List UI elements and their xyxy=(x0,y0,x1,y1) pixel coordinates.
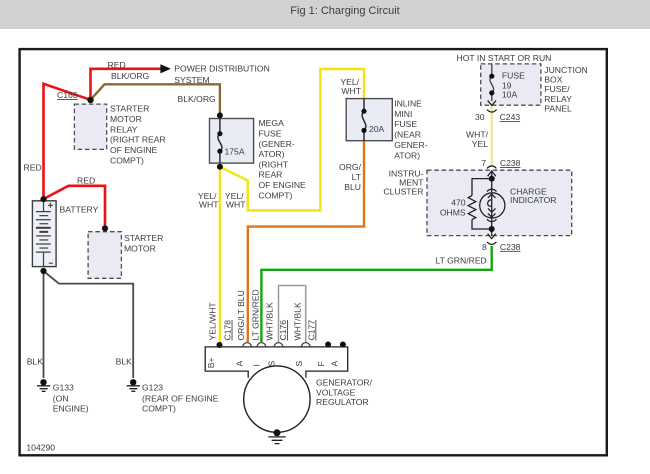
svg-text:YEL: YEL xyxy=(472,139,488,149)
svg-text:30: 30 xyxy=(475,112,485,122)
svg-text:470: 470 xyxy=(451,197,466,207)
label GENERATOR VOLTAGE REGULATOR xyxy=(316,378,373,407)
svg-text:C166: C166 xyxy=(57,90,78,100)
svg-text:LT GRN/RED: LT GRN/RED xyxy=(250,289,260,340)
label WHT/YEL xyxy=(466,129,489,149)
svg-text:C177: C177 xyxy=(306,320,316,341)
svg-text:OF ENGINE: OF ENGINE xyxy=(259,180,307,190)
node mega fuse bottom xyxy=(217,164,223,170)
svg-text:STARTER: STARTER xyxy=(110,104,149,114)
label G123 xyxy=(142,382,219,413)
svg-text:MINI: MINI xyxy=(394,109,412,119)
svg-text:OF ENGINE: OF ENGINE xyxy=(110,145,158,155)
svg-text:WHT/BLK: WHT/BLK xyxy=(293,302,303,340)
starter motor relay box xyxy=(74,104,106,149)
svg-text:REAR: REAR xyxy=(259,170,283,180)
arrow down cluster exit xyxy=(488,234,496,239)
generator connector bar xyxy=(205,347,348,378)
wire WHT/YEL C243 to cluster xyxy=(491,106,493,166)
charge indicator lamp xyxy=(480,189,505,221)
inline fuse element 20A xyxy=(362,99,366,141)
svg-text:(RIGHT: (RIGHT xyxy=(259,159,289,169)
svg-text:WHT: WHT xyxy=(226,199,246,209)
label 8 C238 xyxy=(482,242,521,252)
svg-text:GENERATOR/: GENERATOR/ xyxy=(316,378,373,388)
arrowhead power distribution xyxy=(160,64,170,73)
svg-text:FUSE: FUSE xyxy=(394,119,417,129)
label FUSE 19 10A xyxy=(502,71,525,100)
node mega fuse top xyxy=(217,112,223,118)
svg-text:(REAR OF ENGINE: (REAR OF ENGINE xyxy=(142,393,219,403)
svg-text:WHT: WHT xyxy=(341,86,361,96)
label 30 C243 xyxy=(475,112,520,122)
generator pin labels xyxy=(206,357,339,368)
svg-text:FUSE/: FUSE/ xyxy=(544,84,570,94)
wire BLK battery to G123 xyxy=(44,271,134,378)
label starter motor relay xyxy=(110,104,166,166)
svg-text:7: 7 xyxy=(481,158,486,168)
svg-text:ENGINE): ENGINE) xyxy=(53,404,89,414)
svg-text:YEL/WHT: YEL/WHT xyxy=(208,302,218,341)
svg-text:A: A xyxy=(329,361,339,367)
svg-text:PANEL: PANEL xyxy=(544,104,572,114)
svg-text:G123: G123 xyxy=(142,382,163,392)
svg-text:OHMS: OHMS xyxy=(440,208,466,218)
svg-text:RED: RED xyxy=(77,175,95,185)
svg-text:HOT IN START OR RUN: HOT IN START OR RUN xyxy=(457,53,552,63)
svg-text:BOX: BOX xyxy=(544,75,562,85)
node generator F xyxy=(325,342,331,348)
svg-text:C178: C178 xyxy=(223,320,233,341)
svg-text:8: 8 xyxy=(482,242,487,252)
battery box xyxy=(32,201,56,267)
svg-text:WHT: WHT xyxy=(199,199,219,209)
connector arc cluster exit xyxy=(487,242,496,245)
connector arc pin S left xyxy=(274,343,283,347)
svg-text:VOLTAGE: VOLTAGE xyxy=(316,387,356,397)
wire WHT/BLK jumper C176-C177 xyxy=(279,286,306,344)
ground G133 xyxy=(37,379,50,391)
svg-text:20A: 20A xyxy=(369,124,385,134)
title bar xyxy=(0,0,650,29)
svg-text:B+: B+ xyxy=(206,357,216,368)
svg-text:ATOR): ATOR) xyxy=(259,149,285,159)
node starter motor xyxy=(102,225,108,231)
svg-text:BLK/ORG: BLK/ORG xyxy=(178,94,217,104)
svg-text:RELAY: RELAY xyxy=(110,124,138,134)
svg-text:G133: G133 xyxy=(53,382,74,392)
arrow up into cluster xyxy=(488,171,496,176)
svg-text:BLK/ORG: BLK/ORG xyxy=(111,71,150,81)
inline mini fuse box xyxy=(346,99,392,141)
svg-text:A: A xyxy=(235,361,245,367)
label instrument cluster xyxy=(383,168,424,196)
wire BLK/ORG C166 to mega fuse xyxy=(91,84,220,115)
svg-text:RELAY: RELAY xyxy=(544,94,572,104)
mega fuse box xyxy=(210,119,254,164)
cluster internal wiring xyxy=(468,172,492,236)
svg-text:S: S xyxy=(267,361,277,367)
wire BLK battery to G133 xyxy=(43,271,45,378)
svg-text:SYSTEM: SYSTEM xyxy=(174,75,209,85)
svg-text:104290: 104290 xyxy=(26,442,55,452)
ground generator xyxy=(268,429,285,443)
svg-text:GENER-: GENER- xyxy=(394,140,428,150)
label starter motor xyxy=(124,233,163,253)
node generator A right xyxy=(340,342,346,348)
fuse 19 junction box xyxy=(481,64,541,105)
svg-text:(GENER-: (GENER- xyxy=(259,139,295,149)
svg-text:S: S xyxy=(294,361,304,367)
connector arc pin A xyxy=(243,343,252,347)
svg-text:COMPT): COMPT) xyxy=(110,156,144,166)
svg-text:C243: C243 xyxy=(500,112,521,122)
svg-text:CLUSTER: CLUSTER xyxy=(383,186,423,196)
diagram border frame xyxy=(20,49,607,455)
svg-text:REGULATOR: REGULATOR xyxy=(316,397,369,407)
svg-text:BATTERY: BATTERY xyxy=(60,204,99,214)
svg-text:(NEAR: (NEAR xyxy=(394,130,421,140)
svg-text:POWER DISTRIBUTION: POWER DISTRIBUTION xyxy=(174,63,269,73)
wire YEL/WHT mega fuse to generator B+ xyxy=(219,167,221,345)
svg-text:MEGA: MEGA xyxy=(259,118,285,128)
svg-text:ATOR): ATOR) xyxy=(394,150,420,160)
wire RED battery to C166 node and to power distribution arrow xyxy=(44,69,161,228)
label 7 C238 xyxy=(481,158,520,168)
starter motor box xyxy=(88,232,121,279)
svg-text:C176: C176 xyxy=(278,320,288,341)
label junction box fuse relay panel xyxy=(544,65,587,114)
svg-text:WHT/BLK: WHT/BLK xyxy=(264,302,274,340)
svg-text:FUSE: FUSE xyxy=(502,71,525,81)
svg-text:RED: RED xyxy=(108,60,126,70)
node C166 xyxy=(87,97,93,103)
battery plus symbol xyxy=(48,203,53,208)
svg-text:MOTOR: MOTOR xyxy=(124,243,156,253)
svg-text:JUNCTION: JUNCTION xyxy=(544,65,587,75)
svg-text:ORG/LT BLU: ORG/LT BLU xyxy=(236,290,246,340)
label CHARGE INDICATOR xyxy=(510,186,556,205)
ground G123 xyxy=(127,379,140,391)
node generator B+ xyxy=(217,342,223,348)
svg-text:RED: RED xyxy=(24,163,42,173)
node battery positive xyxy=(40,196,46,202)
wire LT GRN/RED cluster to generator I xyxy=(261,246,491,342)
battery minus symbol xyxy=(49,262,53,264)
svg-text:(ON: (ON xyxy=(53,393,69,403)
wire ORG/LT BLU inline fuse to generator A xyxy=(248,141,364,342)
svg-text:BLK: BLK xyxy=(27,357,44,367)
svg-text:C238: C238 xyxy=(500,242,521,252)
svg-text:(RIGHT REAR: (RIGHT REAR xyxy=(110,135,166,145)
node battery negative xyxy=(40,268,46,274)
label YEL/WHT pair xyxy=(198,191,246,209)
svg-text:C238: C238 xyxy=(500,158,521,168)
svg-text:I: I xyxy=(251,364,261,366)
svg-text:LT GRN/RED: LT GRN/RED xyxy=(436,255,487,265)
svg-text:ORG/: ORG/ xyxy=(339,162,362,172)
svg-text:INLINE: INLINE xyxy=(394,98,422,108)
connector arc pin S right xyxy=(301,343,310,347)
instrument cluster box xyxy=(427,170,572,235)
svg-text:INDICATOR: INDICATOR xyxy=(510,195,556,205)
wire YEL/WHT mega fuse to inline fuse xyxy=(220,69,364,210)
battery internal plates xyxy=(36,201,51,266)
generator circle xyxy=(244,366,310,432)
svg-text:FUSE: FUSE xyxy=(259,129,282,139)
svg-text:COMPT): COMPT) xyxy=(259,190,293,200)
svg-text:Fig 1: Charging Circuit: Fig 1: Charging Circuit xyxy=(290,5,399,17)
node cluster bottom xyxy=(489,226,495,232)
label 470 OHMS xyxy=(440,197,466,217)
mega fuse element xyxy=(218,119,222,164)
label YEL/WHT top right xyxy=(340,77,361,96)
fuse 19 element xyxy=(490,64,494,101)
svg-text:F: F xyxy=(316,361,326,366)
label inline mini fuse xyxy=(394,98,428,160)
connector arc cluster top xyxy=(487,166,496,168)
svg-text:10A: 10A xyxy=(502,89,518,99)
connector arc pin I xyxy=(257,343,266,347)
label ORG/LT BLU xyxy=(339,162,362,192)
svg-text:BLU: BLU xyxy=(344,182,361,192)
svg-text:175A: 175A xyxy=(225,146,245,156)
vertical wire labels at generator connector xyxy=(208,289,317,340)
label G133 xyxy=(53,382,89,413)
connector arc C243 xyxy=(487,110,497,113)
svg-text:BLK: BLK xyxy=(116,357,133,367)
label mega fuse xyxy=(259,118,307,200)
arrow down at C243 xyxy=(488,101,496,106)
svg-text:STARTER: STARTER xyxy=(124,233,163,243)
svg-text:WHT/: WHT/ xyxy=(466,129,489,139)
svg-text:MOTOR: MOTOR xyxy=(110,114,142,124)
svg-text:COMPT): COMPT) xyxy=(142,404,176,414)
svg-text:LT: LT xyxy=(352,172,362,182)
node cluster top xyxy=(489,176,495,182)
